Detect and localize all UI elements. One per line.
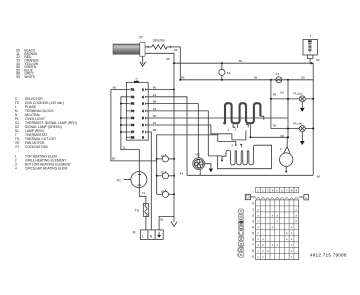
svg-text:P6: P6	[131, 123, 135, 127]
svg-text:6: 6	[252, 237, 254, 241]
svg-text:L: L	[142, 235, 144, 239]
svg-text:180ohm: 180ohm	[153, 39, 165, 43]
oven light PL(dx)	[270, 92, 314, 112]
svg-text:11: 11	[142, 191, 145, 195]
svg-text:99: 99	[273, 124, 277, 128]
svg-text:11: 11	[122, 146, 125, 150]
lamp SL 2	[156, 171, 175, 179]
node: 66 bus junction at rail	[173, 62, 175, 64]
wire: 66 feed to P1 from left rail	[111, 86, 157, 161]
svg-text:3: 3	[231, 143, 233, 147]
header digit cells	[256, 187, 299, 192]
legend: wire colour codes	[16, 49, 39, 79]
svg-text:2: 2	[235, 127, 237, 131]
element 1-2 terminals	[233, 116, 264, 137]
svg-text:0: 0	[252, 201, 254, 205]
wire: 00 rail down to circular element	[280, 79, 289, 138]
svg-text:00: 00	[280, 90, 284, 94]
selector pins P1-P8	[126, 88, 148, 140]
wire: pin7 99 down to N terminal	[148, 132, 151, 230]
thermostat signal lamp S1 (red)	[275, 72, 281, 83]
svg-text:P3: P3	[131, 102, 135, 106]
svg-text:66: 66	[239, 59, 243, 63]
svg-text:VT: VT	[15, 145, 19, 149]
svg-text:8: 8	[252, 249, 254, 253]
svg-text:7: 7	[252, 243, 254, 247]
svg-text:66: 66	[317, 175, 321, 179]
svg-text:3: 3	[252, 219, 254, 223]
svg-text:9: 9	[252, 255, 254, 259]
svg-text:4: 4	[15, 166, 17, 170]
svg-text:00: 00	[153, 114, 157, 118]
svg-text:55: 55	[160, 218, 164, 222]
wire: VR bottom to bus	[199, 169, 201, 175]
wire: pin1 66 to rail	[148, 89, 174, 91]
resistor 180ohm	[145, 39, 180, 52]
svg-text:22: 22	[153, 121, 157, 125]
svg-text:P7: P7	[131, 130, 135, 134]
svg-text:66: 66	[113, 86, 117, 90]
function icons column	[238, 209, 244, 257]
wire: FC bottom to TS	[139, 188, 146, 204]
svg-text:66: 66	[316, 58, 320, 62]
svg-text:99: 99	[181, 76, 185, 80]
svg-text:99: 99	[174, 48, 178, 52]
grid	[256, 200, 299, 260]
thermostat T box	[303, 34, 317, 64]
svg-text:P8: P8	[131, 135, 135, 139]
svg-text:4: 4	[280, 147, 282, 151]
fan motor VR	[193, 153, 205, 170]
node: element junction	[249, 136, 251, 138]
wire: pin3 88 down to fan motor VR	[148, 104, 198, 158]
svg-text:S1: S1	[275, 72, 279, 76]
wire: 66 rail down left side (SL right rail)	[173, 63, 175, 222]
bottom heating element 3	[222, 141, 255, 165]
lamp SL 3	[157, 189, 175, 197]
svg-text:PL(dx): PL(dx)	[293, 92, 302, 96]
svg-text:99: 99	[153, 128, 157, 132]
wire: TS to L	[145, 216, 147, 230]
row numbers	[252, 201, 254, 259]
svg-text:99: 99	[16, 75, 20, 79]
svg-text:66: 66	[153, 86, 157, 90]
wire: resistor down to 99 bus	[179, 47, 181, 80]
wire: 44 bottom bus	[187, 174, 313, 176]
thermal cut-out TS	[135, 204, 149, 217]
ground arrow bottom	[171, 222, 177, 227]
VR earth arrow	[205, 164, 214, 173]
ground arrow under VT	[140, 56, 146, 66]
svg-text:FC: FC	[117, 179, 122, 183]
svg-text:2: 2	[252, 213, 254, 217]
svg-text:5: 5	[252, 231, 254, 235]
svg-text:PL(sx): PL(sx)	[293, 121, 302, 125]
wire: pin5 00 to right rail	[148, 117, 288, 119]
wire: right 66 rail down	[312, 63, 314, 175]
svg-text:00: 00	[301, 75, 305, 79]
oven light PL(sx)	[271, 121, 314, 145]
svg-text:P5: P5	[131, 116, 135, 120]
svg-text:99: 99	[254, 75, 258, 79]
wire: SL left rail	[156, 135, 158, 194]
svg-text:99: 99	[273, 93, 277, 97]
wire: 11 rail feeding P2,P3,P5,P6,P7	[120, 97, 139, 172]
svg-text:66: 66	[166, 57, 170, 61]
svg-text:P1: P1	[131, 88, 135, 92]
svg-text:4: 4	[252, 225, 254, 229]
cooling fan VT	[113, 35, 145, 56]
selector C box	[126, 78, 148, 141]
wire: VT bottom terminal to 66 rail	[145, 53, 174, 63]
svg-text:88: 88	[153, 100, 157, 104]
svg-text:CIRCULAR HEATING ELEM.: CIRCULAR HEATING ELEM.	[25, 166, 68, 170]
svg-text:1: 1	[252, 207, 254, 211]
wire: pin4 33 down to bottom element	[148, 111, 222, 156]
svg-text:COOLING FAN: COOLING FAN	[25, 145, 48, 149]
wire: element junction to 00 rail	[251, 136, 289, 138]
wire: pin2 44 down to bottom bus	[148, 97, 187, 176]
wire: 55 earth from M to chassis	[159, 217, 174, 230]
selector function table	[238, 187, 347, 259]
svg-text:VT: VT	[139, 35, 143, 39]
svg-text:WHITE: WHITE	[24, 75, 35, 79]
wire: 99/00 bus	[180, 79, 313, 81]
grill/top heating element 1-2	[223, 103, 260, 123]
wire: 66 bus	[174, 62, 313, 64]
svg-text:P2: P2	[131, 95, 135, 99]
signal lamp S2 (green)	[219, 62, 231, 81]
header contact braces	[256, 197, 298, 199]
svg-text:SL: SL	[161, 171, 165, 175]
svg-text:44: 44	[180, 172, 184, 176]
legend: component abbreviations	[15, 97, 77, 170]
wire: lamp rail top wire	[157, 135, 236, 142]
svg-text:4812 715 79088: 4812 715 79088	[310, 252, 347, 257]
svg-text:VR: VR	[195, 153, 200, 157]
wire: 99 rail down to oven lights	[270, 79, 277, 129]
svg-text:1: 1	[227, 128, 229, 132]
svg-text:M: M	[133, 230, 136, 234]
end-cooking timer FC	[117, 172, 147, 188]
lamp SL 1	[156, 154, 175, 162]
svg-text:33: 33	[153, 107, 157, 111]
selector output labels	[153, 86, 157, 133]
svg-text:S2: S2	[227, 71, 231, 75]
terminal block M	[133, 230, 164, 240]
svg-text:44: 44	[153, 93, 157, 97]
circular heating element 4	[280, 137, 293, 172]
wire: pin6 22 staircase to element terminal	[148, 125, 246, 140]
wire: element 3 return loop	[217, 145, 271, 169]
svg-text:P4: P4	[131, 109, 135, 113]
svg-text:SL: SL	[161, 189, 165, 193]
svg-text:66: 66	[112, 157, 116, 161]
svg-text:SL: SL	[161, 154, 165, 158]
svg-text:T: T	[309, 34, 311, 38]
corner cell	[245, 194, 250, 199]
grid x marks	[257, 207, 297, 259]
